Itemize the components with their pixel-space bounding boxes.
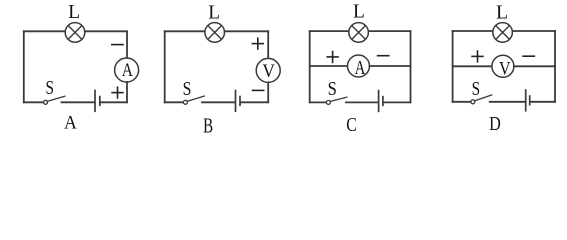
battery (circuit D) xyxy=(526,89,530,111)
wire A top-left segment xyxy=(24,30,65,32)
wire C middle rail left xyxy=(310,65,348,67)
wire C switch to battery xyxy=(346,101,378,103)
circuit D xyxy=(453,3,555,135)
plus sign (circuit A) xyxy=(111,86,123,98)
wire D left side xyxy=(452,31,454,102)
battery (circuit B) xyxy=(236,90,241,112)
wire D right side xyxy=(554,31,556,102)
wire C middle rail right xyxy=(370,65,411,67)
wire A left side xyxy=(23,31,25,102)
svg-text:L: L xyxy=(208,3,220,24)
switch S (circuit B) xyxy=(183,96,204,104)
wire B battery to corner xyxy=(241,101,268,103)
wire C left side xyxy=(309,31,311,102)
wire A right lower xyxy=(126,82,128,102)
wire A top-right segment xyxy=(85,30,127,32)
wire D switch to battery xyxy=(490,101,525,103)
lamp L (circuit C) xyxy=(349,23,369,43)
wire D bottom-left to switch xyxy=(453,101,471,103)
svg-text:L: L xyxy=(353,2,365,23)
plus sign (circuit D) xyxy=(471,50,483,62)
plus sign (circuit B) xyxy=(252,37,264,49)
svg-text:A: A xyxy=(122,61,134,81)
wire C top-right segment xyxy=(368,30,410,32)
meter ammeter A (circuit C) xyxy=(348,55,370,79)
svg-text:A: A xyxy=(355,58,366,79)
svg-text:C: C xyxy=(346,115,357,135)
svg-text:S: S xyxy=(46,78,55,99)
meter voltmeter V (circuit D) xyxy=(492,55,514,79)
wire B top-right segment xyxy=(225,30,269,32)
switch S (circuit A) xyxy=(44,96,66,104)
svg-text:L: L xyxy=(496,3,508,24)
circuit B xyxy=(165,3,281,138)
wire A switch to battery xyxy=(62,101,95,103)
wire D middle rail right xyxy=(514,65,555,67)
plus sign (circuit C) xyxy=(326,51,338,63)
svg-text:D: D xyxy=(489,114,501,135)
minus sign (circuit A) xyxy=(111,44,124,46)
wire B right upper xyxy=(267,31,269,58)
wire B top-left segment xyxy=(165,30,205,32)
minus sign (circuit B) xyxy=(252,89,265,91)
circuit C xyxy=(310,2,411,136)
wire D top-right segment xyxy=(512,30,555,32)
wire D top-left segment xyxy=(453,30,493,32)
svg-text:S: S xyxy=(328,79,337,100)
meter ammeter A (circuit A) xyxy=(115,58,139,82)
wire C bottom-left to switch xyxy=(310,101,327,103)
lamp L (circuit D) xyxy=(493,23,513,43)
minus sign (circuit D) xyxy=(522,55,535,57)
svg-text:A: A xyxy=(64,113,77,133)
svg-text:V: V xyxy=(499,58,511,79)
wire D middle rail left xyxy=(453,65,492,67)
wire A battery to corner xyxy=(101,101,127,103)
wire A right upper xyxy=(126,31,128,58)
wire C top-left segment xyxy=(310,30,349,32)
wire B bottom-left to switch xyxy=(165,101,184,103)
switch S (circuit D) xyxy=(471,95,492,104)
battery (circuit C) xyxy=(379,90,383,112)
minus sign (circuit C) xyxy=(377,55,390,57)
wire C right side xyxy=(410,31,412,102)
meter voltmeter V (circuit B) xyxy=(256,58,280,82)
wire B right lower xyxy=(267,82,269,102)
battery (circuit A) xyxy=(95,90,100,112)
circuit A xyxy=(24,2,139,133)
wire B left side xyxy=(164,31,166,102)
svg-text:S: S xyxy=(472,79,481,100)
switch S (circuit C) xyxy=(326,97,347,104)
svg-text:S: S xyxy=(183,78,192,100)
lamp L (circuit B) xyxy=(205,23,225,43)
lamp L (circuit A) xyxy=(65,23,85,43)
svg-text:L: L xyxy=(68,2,80,23)
svg-text:V: V xyxy=(262,61,275,82)
wire A bottom-left to switch xyxy=(24,101,44,103)
wire B switch to battery xyxy=(202,101,235,103)
svg-text:B: B xyxy=(203,114,213,135)
wire C battery to corner xyxy=(384,101,411,103)
wire D battery to corner xyxy=(531,101,556,103)
